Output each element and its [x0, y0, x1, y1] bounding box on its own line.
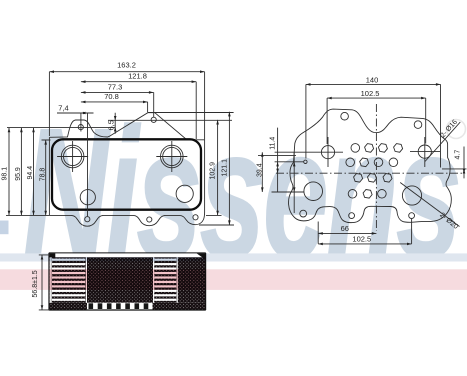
- svg-text:6,5: 6,5: [106, 120, 115, 130]
- svg-text:11.4: 11.4: [269, 137, 276, 150]
- svg-text:77.3: 77.3: [108, 82, 123, 91]
- svg-text:56.8±1.5: 56.8±1.5: [32, 270, 39, 297]
- svg-text:95.9: 95.9: [15, 167, 22, 181]
- svg-text:102.5: 102.5: [361, 89, 380, 98]
- svg-text:121.8: 121.8: [128, 72, 147, 81]
- svg-text:7,4: 7,4: [58, 104, 68, 113]
- svg-text:78.8: 78.8: [39, 168, 46, 182]
- svg-text:98.1: 98.1: [1, 167, 8, 181]
- svg-text:121.1: 121.1: [221, 159, 228, 177]
- svg-text:140: 140: [366, 76, 379, 85]
- svg-text:94.4: 94.4: [27, 166, 34, 180]
- svg-text:66: 66: [341, 224, 349, 233]
- svg-text:102.9: 102.9: [210, 162, 217, 180]
- svg-text:4.7: 4.7: [455, 150, 462, 160]
- svg-text:70.8: 70.8: [104, 92, 119, 101]
- svg-text:102.5: 102.5: [352, 235, 371, 244]
- svg-text:163.2: 163.2: [117, 61, 136, 70]
